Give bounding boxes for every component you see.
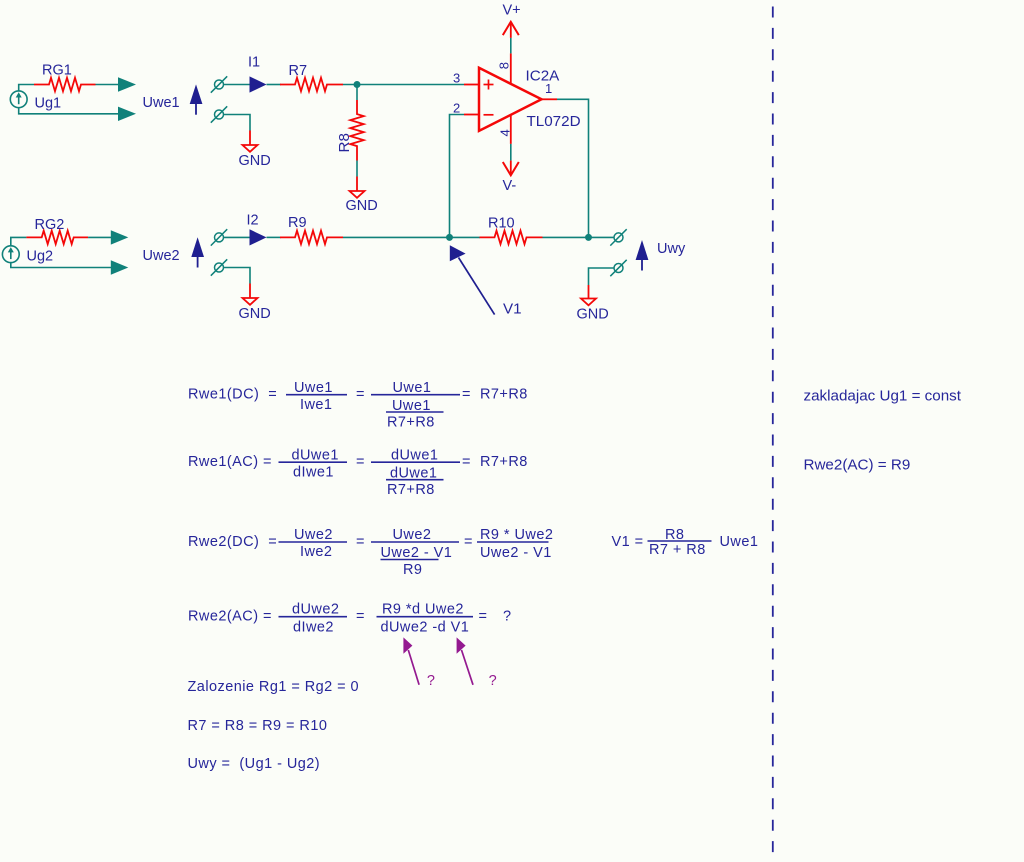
svg-text:R7+R8: R7+R8 [480,454,528,470]
svg-text:R10: R10 [488,216,515,232]
wire output ground branch [589,268,615,285]
resistor RG2 [26,231,88,244]
svg-text:=: = [356,608,365,624]
svg-text:=: = [356,454,365,470]
voltage arrow Uwy [636,240,649,271]
pin 8 stub [510,53,512,83]
op-amp IC2A [464,53,557,143]
svg-text:2: 2 [453,101,460,116]
port arrow Uwe1 bottom [118,107,136,121]
resistor R9 [280,231,343,244]
svg-text:R7+R8: R7+R8 [387,414,435,430]
voltage arrow Uwe1 [190,84,203,114]
minus marking [484,114,494,116]
ground row1 branch [243,131,258,152]
svg-text:Ug1: Ug1 [35,96,62,112]
pin 3 stub [464,84,479,86]
current probe I2 [250,229,267,245]
svg-text:?: ? [489,673,497,689]
svg-text:GND: GND [346,198,378,214]
svg-text:R9 * Uwe2: R9 * Uwe2 [480,527,553,543]
wire to I2 [224,236,250,238]
port arrow Uwe2 bottom [111,260,129,274]
pin 2 stub [464,114,479,116]
svg-text:?: ? [427,673,435,689]
wire node to R8 [356,87,358,100]
svg-text:Uwe1: Uwe1 [143,95,180,111]
svg-text:dUwe1: dUwe1 [292,447,339,463]
wire Ug2 bottom [11,263,112,268]
ground output branch [581,285,596,305]
svg-text:8: 8 [497,62,512,69]
wire op-amp output loop [557,99,589,237]
wire R10 to output [543,236,615,238]
svg-text:GND: GND [577,307,609,323]
wire no-connect to ground branch [224,115,251,131]
svg-text:dUwe1: dUwe1 [391,447,438,463]
dashed separator line [772,7,774,862]
junction node output [585,234,592,241]
svg-text:Uwe2: Uwe2 [294,527,333,543]
svg-text:Zalozenie Rg1 = Rg2 = 0: Zalozenie Rg1 = Rg2 = 0 [188,679,360,695]
svg-text:I2: I2 [247,213,259,229]
V+ supply wire [510,23,512,54]
junction node V1 [446,234,453,241]
no-connect symbol row1 top [211,76,227,92]
wire R9 to R10 [343,236,480,238]
no-connect symbol output bottom [610,260,626,276]
svg-text:Iwe1: Iwe1 [300,397,332,413]
svg-text:R9 *d Uwe2: R9 *d Uwe2 [382,602,464,618]
svg-text:IC2A: IC2A [526,68,561,85]
wire I1 to R7 [267,84,282,86]
svg-text:Uwe2 - V1: Uwe2 - V1 [480,545,552,561]
svg-text:Ug2: Ug2 [27,249,54,265]
svg-text:Rwe2(DC) =: Rwe2(DC) = [188,534,277,550]
svg-text:V1: V1 [503,301,522,318]
port arrow Uwe2 top [111,230,129,244]
wire R8 to ground [356,161,358,177]
pin 1 stub [542,98,558,100]
svg-text:Uwe1: Uwe1 [294,380,333,396]
resistor R7 [280,78,343,91]
svg-text:Rwe2(AC) = R9: Rwe2(AC) = R9 [804,457,911,474]
svg-text:=: = [462,454,471,470]
wire to I1 [224,84,250,86]
V- arrow [503,162,519,175]
ground below R8 [350,177,365,198]
no-connect symbol row1 bottom [211,106,227,122]
wire R7 to op-amp pin 3 [343,84,464,86]
voltage source Ug1 [10,91,27,108]
Ug1 source arrow head [16,92,22,97]
svg-text:Iwe2: Iwe2 [300,544,332,560]
svg-text:3: 3 [453,71,460,86]
svg-text:zakladajac Ug1 = const: zakladajac Ug1 = const [804,388,962,405]
svg-text:dIwe1: dIwe1 [293,464,334,480]
svg-text:R7 + R8: R7 + R8 [649,542,706,558]
voltage arrow Uwe2 [191,237,204,267]
annotation arrow question 1 [403,637,419,684]
svg-text:?: ? [503,608,512,624]
svg-text:V+: V+ [503,3,521,19]
formula row 2: Rwe1(AC) [188,447,528,498]
svg-text:V1 =: V1 = [612,534,644,550]
plus marking [484,80,494,90]
svg-text:Rwe2(AC) =: Rwe2(AC) = [188,608,272,624]
svg-text:R7 = R8 = R9 = R10: R7 = R8 = R9 = R10 [188,718,328,734]
svg-text:Uwy = (Ug1 - Ug2): Uwy = (Ug1 - Ug2) [188,756,321,772]
svg-text:RG1: RG1 [42,63,72,79]
pin 4 stub [510,115,512,143]
no-connect symbol output top [610,229,626,245]
svg-text:=: = [356,386,365,402]
voltage source Ug2 [2,246,19,263]
svg-text:=: = [479,608,488,624]
wire Ug1 top [19,85,34,91]
V+ arrow [503,22,519,35]
annotation arrow question 2 [457,637,473,684]
resistor RG1 [34,78,96,91]
svg-text:V-: V- [503,178,517,194]
resistor R10 [480,231,543,244]
svg-text:Uwy: Uwy [657,241,686,257]
svg-text:TL072D: TL072D [527,113,581,130]
ground row2 branch [243,284,258,305]
svg-text:Rwe1(DC) =: Rwe1(DC) = [188,386,277,402]
wire RG2 to arrow [88,236,111,238]
svg-text:=: = [464,534,473,550]
V1 annotation arrow [450,245,495,314]
svg-text:dUwe2 -d V1: dUwe2 -d V1 [381,620,470,636]
wire RG1 to arrow [96,84,119,86]
svg-text:Uwe2: Uwe2 [393,527,432,543]
svg-text:R7+R8: R7+R8 [387,482,435,498]
svg-text:dUwe2: dUwe2 [292,602,339,618]
formula row 3: Rwe2(DC) [188,527,758,578]
formula row 4: Rwe2(AC) [188,602,512,636]
wire Ug1 bottom [19,108,119,114]
Ug2 source arrow head [8,247,14,252]
svg-text:I1: I1 [248,55,260,71]
svg-text:=: = [462,386,471,402]
wire feedback pin2 loop [450,115,465,238]
svg-text:R7+R8: R7+R8 [480,386,528,402]
wire row2 no-connect to ground branch [224,268,251,284]
op-amp triangle [479,68,542,131]
svg-text:R9: R9 [288,215,307,231]
svg-text:Uwe1: Uwe1 [393,380,432,396]
junction node R7/R8 [354,81,361,88]
wire Ug2 top [11,237,27,245]
port arrow Uwe1 top [118,77,136,91]
svg-text:=: = [356,534,365,550]
svg-text:R7: R7 [289,63,308,79]
no-connect symbol row2 bottom [211,259,227,275]
svg-text:Uwe2: Uwe2 [143,248,180,264]
formula row 1: Rwe1(DC) [188,380,528,431]
wire I2 to R9 [267,236,282,238]
svg-text:RG2: RG2 [35,217,65,233]
svg-text:R8: R8 [336,133,353,152]
svg-text:GND: GND [239,153,271,169]
svg-text:R9: R9 [403,562,422,578]
resistor R8 [350,100,363,161]
no-connect symbol row2 top [211,229,227,245]
svg-text:GND: GND [239,306,271,322]
svg-text:4: 4 [498,129,513,136]
svg-text:Rwe1(AC) =: Rwe1(AC) = [188,454,272,470]
svg-text:dIwe2: dIwe2 [293,620,334,636]
V- supply wire [510,144,512,175]
svg-text:Uwe1: Uwe1 [720,534,759,550]
current probe I1 [250,76,267,92]
